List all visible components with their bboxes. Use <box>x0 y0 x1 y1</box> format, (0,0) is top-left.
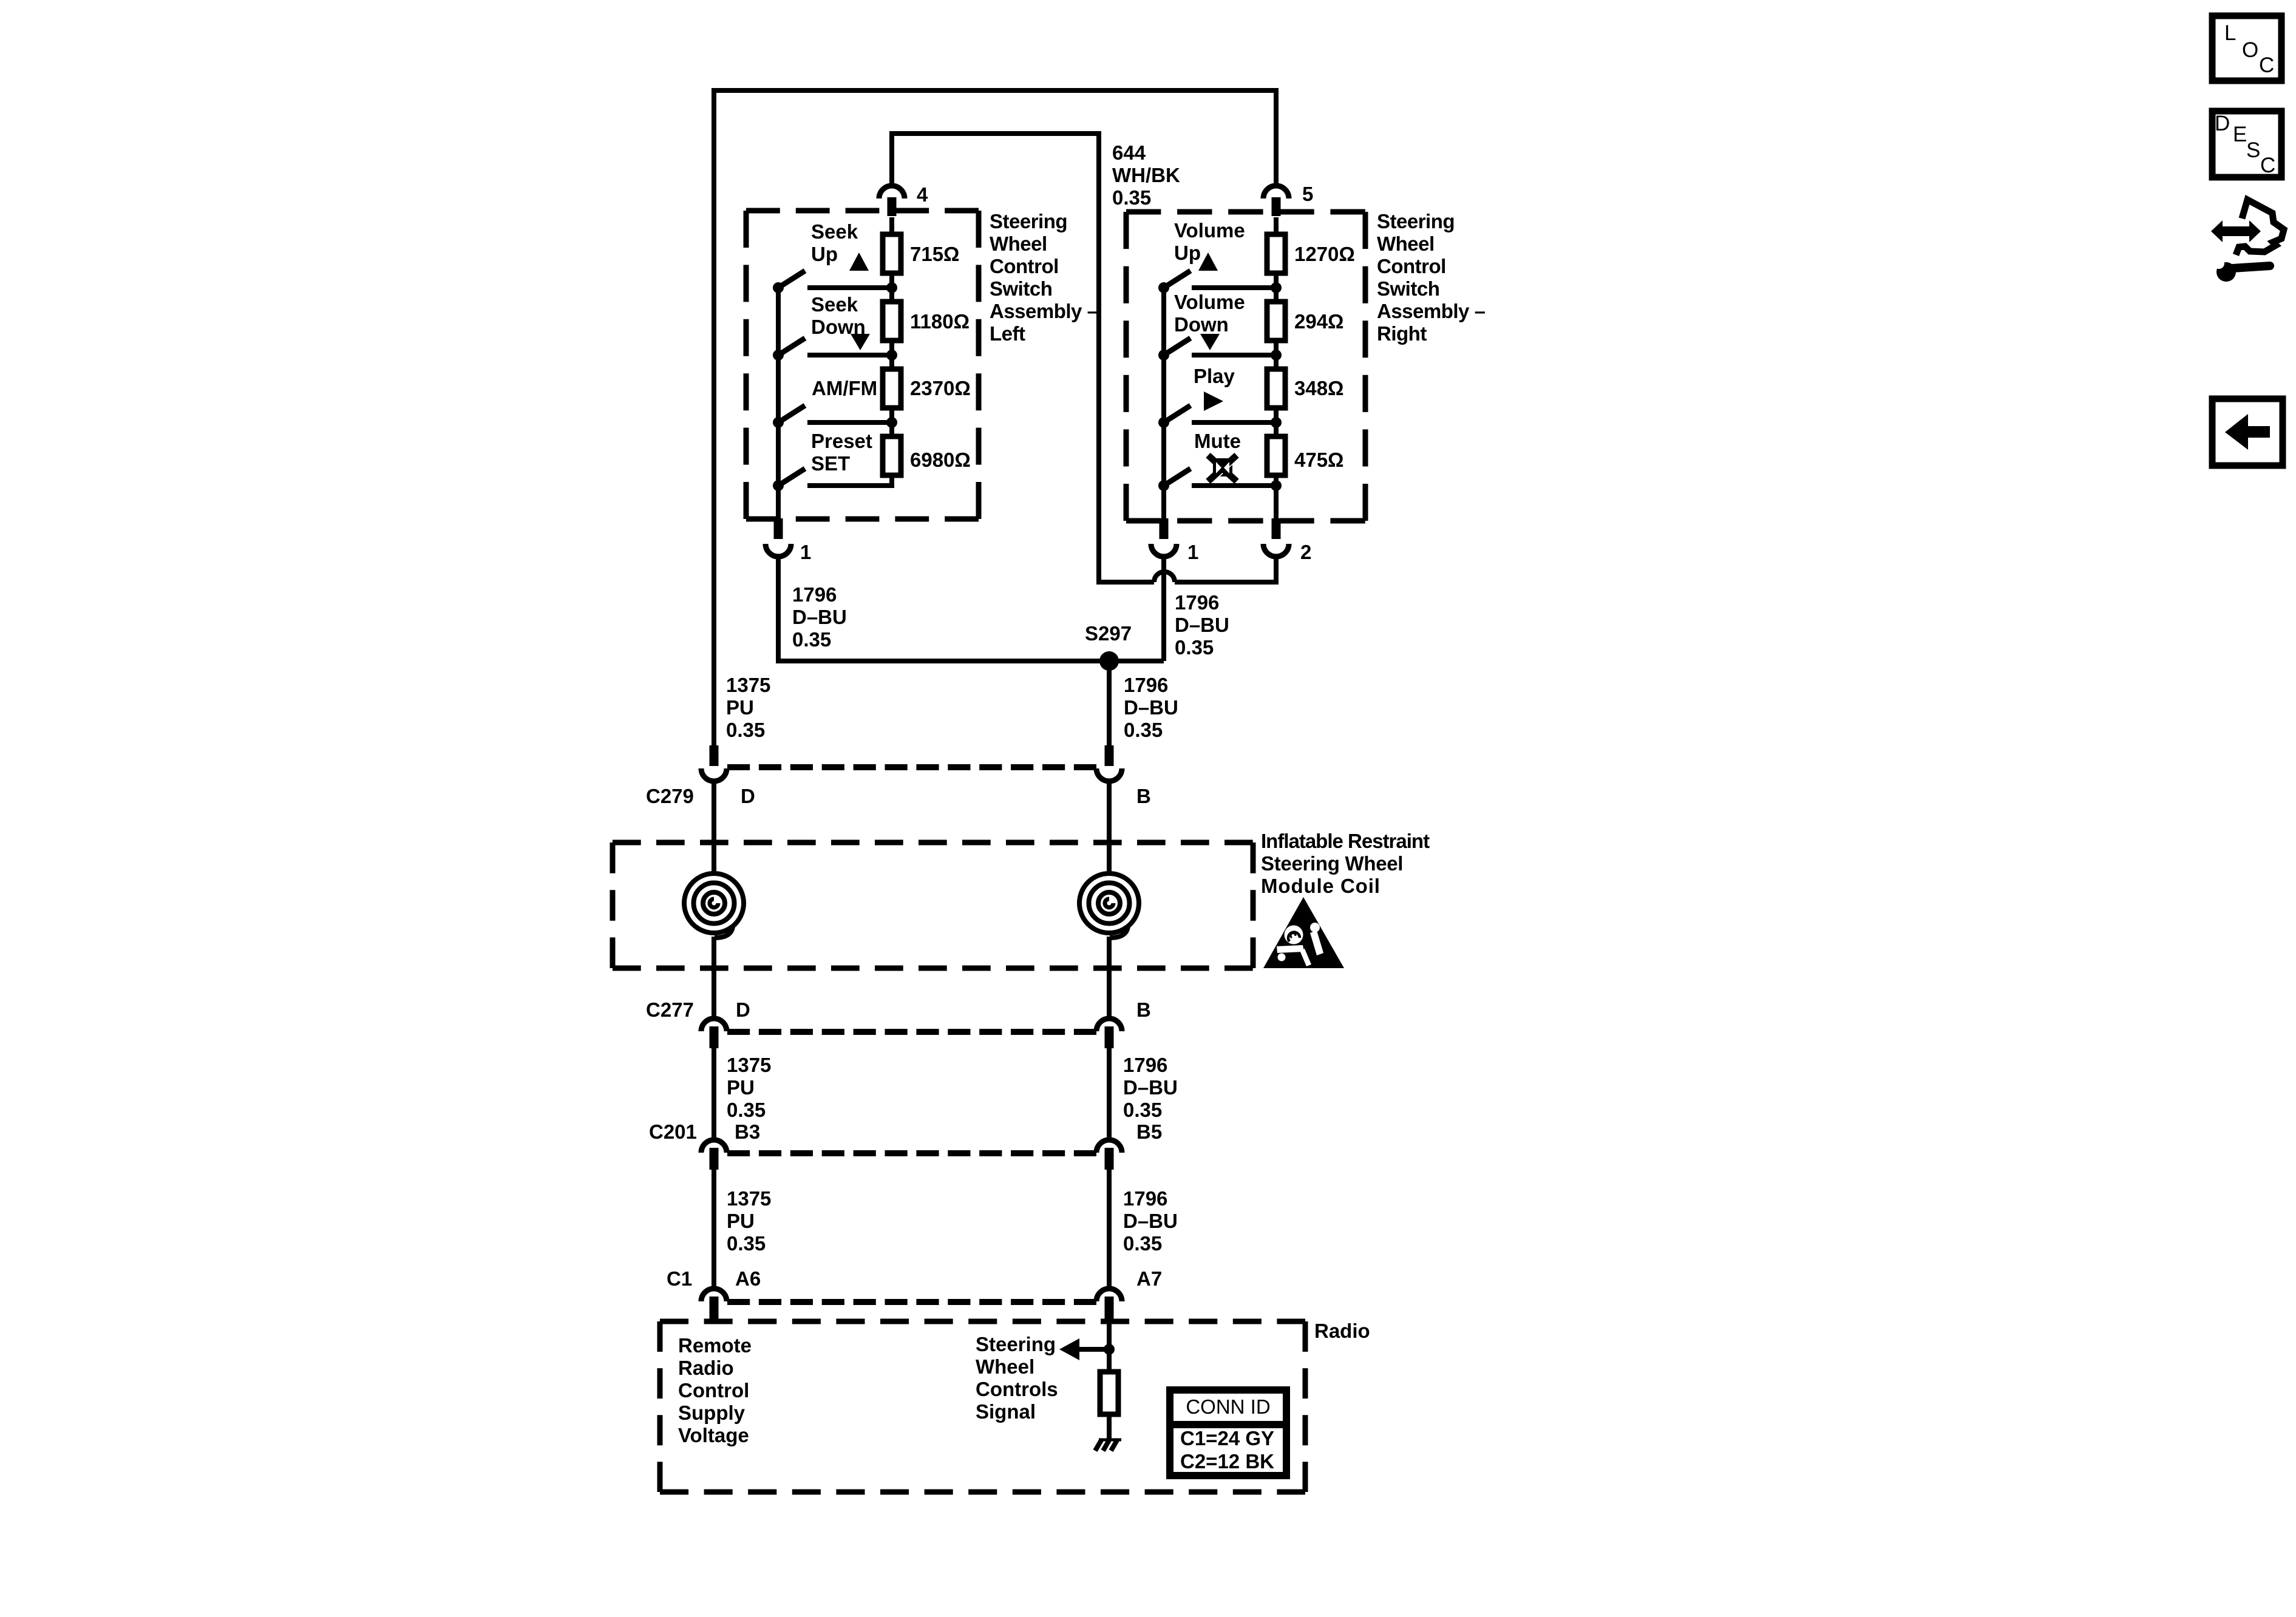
svg-text:E: E <box>2233 123 2247 146</box>
svg-text:Voltage: Voltage <box>678 1424 749 1446</box>
svg-text:A6: A6 <box>735 1267 761 1290</box>
svg-text:715Ω: 715Ω <box>910 243 960 265</box>
svg-text:B: B <box>1136 998 1151 1021</box>
svg-text:Switch: Switch <box>990 277 1052 300</box>
svg-text:B3: B3 <box>735 1120 760 1143</box>
svg-text:Seek: Seek <box>811 293 858 316</box>
svg-text:Steering: Steering <box>976 1333 1056 1355</box>
svg-text:Assembly –: Assembly – <box>990 300 1098 322</box>
svg-text:D–BU: D–BU <box>1175 614 1229 636</box>
svg-text:1180Ω: 1180Ω <box>910 310 970 333</box>
svg-text:C1=24 GY: C1=24 GY <box>1180 1427 1274 1449</box>
svg-text:1375: 1375 <box>727 1187 771 1210</box>
svg-text:0.35: 0.35 <box>1123 1232 1162 1255</box>
svg-text:B5: B5 <box>1136 1120 1162 1143</box>
svg-text:S297: S297 <box>1085 622 1132 645</box>
svg-text:1375: 1375 <box>727 1054 771 1076</box>
svg-text:0.35: 0.35 <box>1123 1099 1162 1121</box>
svg-text:PU: PU <box>726 696 754 719</box>
svg-text:Inflatable Restraint: Inflatable Restraint <box>1261 830 1430 852</box>
svg-text:Supply: Supply <box>678 1402 746 1424</box>
svg-text:D–BU: D–BU <box>1123 1076 1178 1099</box>
svg-text:0.35: 0.35 <box>727 1099 766 1121</box>
svg-text:C: C <box>2259 53 2274 77</box>
svg-text:D: D <box>736 998 750 1021</box>
svg-text:Right: Right <box>1377 322 1427 345</box>
svg-text:Wheel: Wheel <box>976 1355 1034 1378</box>
svg-text:S: S <box>2246 138 2260 162</box>
svg-text:B: B <box>1136 785 1151 807</box>
svg-text:C279: C279 <box>646 785 694 807</box>
svg-text:SET: SET <box>811 452 850 475</box>
svg-text:WH/BK: WH/BK <box>1112 164 1180 186</box>
svg-text:Signal: Signal <box>976 1400 1036 1423</box>
svg-text:L: L <box>2224 21 2236 45</box>
svg-text:Up: Up <box>1174 242 1201 264</box>
svg-text:Control: Control <box>678 1379 749 1402</box>
svg-text:Control: Control <box>990 255 1059 277</box>
svg-text:Module Coil: Module Coil <box>1261 875 1381 897</box>
svg-text:Down: Down <box>1174 313 1229 336</box>
svg-text:Steering: Steering <box>1377 210 1455 232</box>
svg-text:1796: 1796 <box>1123 1187 1167 1210</box>
svg-text:1270Ω: 1270Ω <box>1294 243 1355 265</box>
svg-text:2370Ω: 2370Ω <box>910 377 971 399</box>
svg-text:Mute: Mute <box>1194 430 1241 452</box>
svg-text:AM/FM: AM/FM <box>812 377 877 399</box>
svg-text:C201: C201 <box>649 1120 697 1143</box>
svg-text:Seek: Seek <box>811 220 858 243</box>
svg-text:Radio: Radio <box>1314 1320 1370 1342</box>
svg-text:Steering Wheel: Steering Wheel <box>1261 852 1403 875</box>
svg-text:Remote: Remote <box>678 1334 752 1357</box>
svg-text:1796: 1796 <box>1175 591 1219 614</box>
svg-text:Controls: Controls <box>976 1378 1058 1400</box>
svg-text:PU: PU <box>727 1210 755 1232</box>
svg-text:D–BU: D–BU <box>1124 696 1178 719</box>
svg-text:Wheel: Wheel <box>990 232 1047 255</box>
svg-text:A7: A7 <box>1136 1267 1162 1290</box>
svg-text:1796: 1796 <box>792 583 837 606</box>
svg-text:2: 2 <box>1300 541 1311 563</box>
svg-text:Play: Play <box>1194 365 1235 387</box>
svg-text:C2=12 BK: C2=12 BK <box>1180 1450 1274 1473</box>
svg-text:Preset: Preset <box>811 430 872 452</box>
svg-text:0.35: 0.35 <box>1112 186 1151 209</box>
svg-text:4: 4 <box>917 183 928 206</box>
svg-text:5: 5 <box>1302 183 1313 205</box>
svg-text:1375: 1375 <box>726 674 770 696</box>
svg-text:1: 1 <box>800 541 811 563</box>
svg-text:D: D <box>741 785 755 807</box>
svg-text:0.35: 0.35 <box>726 719 765 741</box>
svg-text:0.35: 0.35 <box>792 628 831 651</box>
svg-text:Up: Up <box>811 243 838 265</box>
svg-text:1796: 1796 <box>1123 1054 1167 1076</box>
svg-text:294Ω: 294Ω <box>1294 310 1344 333</box>
svg-text:Steering: Steering <box>990 210 1067 232</box>
svg-text:D: D <box>2215 112 2230 135</box>
svg-text:Assembly –: Assembly – <box>1377 300 1486 322</box>
svg-text:0.35: 0.35 <box>727 1232 766 1255</box>
svg-text:0.35: 0.35 <box>1124 719 1163 741</box>
svg-text:1796: 1796 <box>1124 674 1168 696</box>
svg-text:C277: C277 <box>646 998 694 1021</box>
svg-text:Control: Control <box>1377 255 1446 277</box>
svg-text:Wheel: Wheel <box>1377 232 1435 255</box>
svg-text:0.35: 0.35 <box>1175 636 1214 659</box>
svg-text:Radio: Radio <box>678 1357 734 1379</box>
svg-text:CONN ID: CONN ID <box>1186 1395 1270 1418</box>
svg-text:D–BU: D–BU <box>1123 1210 1178 1232</box>
svg-text:Down: Down <box>811 316 866 338</box>
svg-text:D–BU: D–BU <box>792 606 847 628</box>
svg-text:475Ω: 475Ω <box>1294 449 1344 471</box>
svg-text:Left: Left <box>990 322 1025 345</box>
svg-text:C1: C1 <box>667 1267 692 1290</box>
svg-text:644: 644 <box>1112 141 1146 164</box>
svg-text:1: 1 <box>1187 541 1198 563</box>
svg-text:Volume: Volume <box>1174 219 1245 242</box>
svg-text:Volume: Volume <box>1174 291 1245 313</box>
svg-text:C: C <box>2260 154 2275 177</box>
svg-text:Switch: Switch <box>1377 277 1439 300</box>
svg-text:6980Ω: 6980Ω <box>910 449 971 471</box>
svg-text:O: O <box>2242 38 2258 62</box>
svg-text:348Ω: 348Ω <box>1294 377 1344 399</box>
svg-text:PU: PU <box>727 1076 755 1099</box>
